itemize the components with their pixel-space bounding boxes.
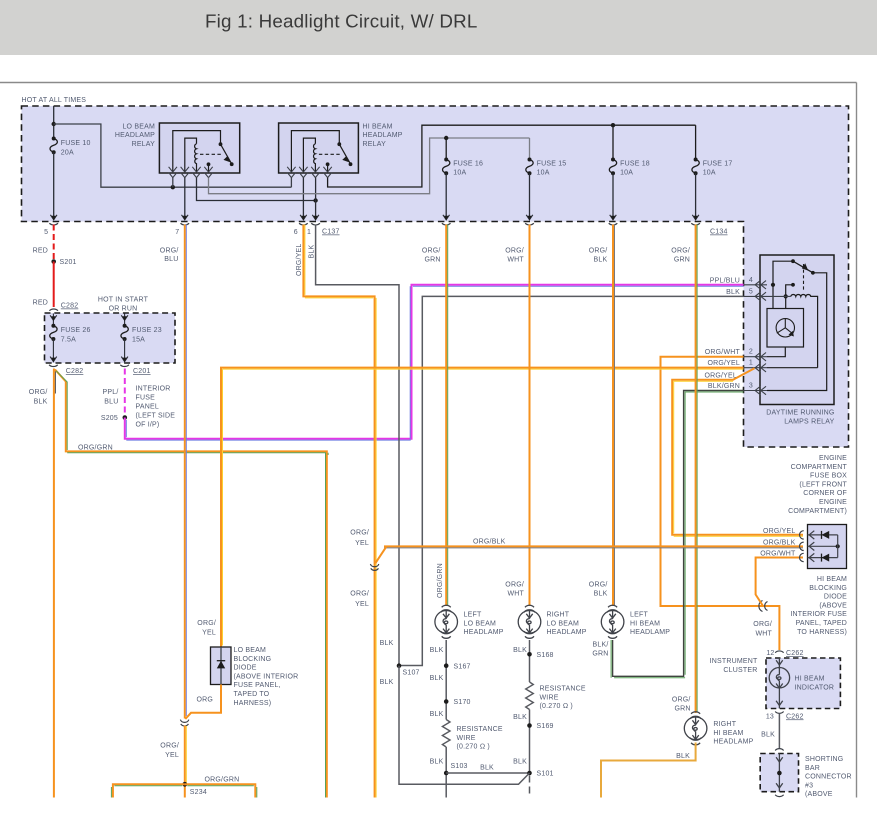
lamp RIGHT LO BEAM HEADLAMP (518, 605, 541, 638)
wire BLK S103 to S101 (446, 772, 529, 774)
svg-text:FUSE 15: FUSE 15 (537, 160, 567, 167)
svg-text:ORG: ORG (196, 696, 213, 703)
connector arc below fuse18 pin (609, 223, 618, 225)
svg-text:ORG/WHT: ORG/WHT (705, 349, 741, 356)
svg-text:ORG/: ORG/ (197, 620, 216, 627)
pin arrow fuse 17 output (692, 215, 699, 221)
connector arc at diode row ORG/BLK (800, 542, 804, 550)
svg-text:BLU: BLU (164, 256, 178, 263)
splice S103 (444, 771, 449, 776)
svg-text:C262: C262 (786, 713, 804, 720)
svg-text:Fig 1: Headlight Circuit, W/ D: Fig 1: Headlight Circuit, W/ DRL (205, 11, 478, 32)
svg-text:FUSE 26: FUSE 26 (61, 327, 91, 334)
svg-text:ORG/: ORG/ (160, 743, 179, 750)
lamp LEFT LO BEAM HEADLAMP (435, 605, 458, 638)
svg-text:ENGINE: ENGINE (819, 455, 847, 462)
svg-text:PANEL: PANEL (136, 403, 159, 410)
svg-text:BLK: BLK (380, 640, 394, 647)
svg-text:ORG/GRN: ORG/GRN (205, 777, 240, 784)
fuse F15 drop (529, 138, 531, 160)
svg-text:HI BEAM: HI BEAM (817, 576, 847, 583)
svg-text:HI BEAM: HI BEAM (713, 730, 743, 737)
wire BLK right lo beam ground chain to S168 (529, 640, 531, 682)
svg-text:HEADLAMP: HEADLAMP (464, 629, 504, 636)
svg-text:ORG/: ORG/ (753, 621, 772, 628)
svg-text:CLUSTER: CLUSTER (723, 667, 757, 674)
svg-text:BLOCKING: BLOCKING (809, 585, 847, 592)
HI relay internal: terminal 1 riser and top bar (291, 131, 339, 172)
connector arc at diode row ORG/WHT (800, 553, 804, 561)
diode common vertical (837, 535, 839, 558)
svg-text:13: 13 (766, 713, 774, 720)
wire BLK dashed below S101 (529, 776, 531, 798)
svg-text:BLK: BLK (726, 289, 740, 296)
fuse F23 symbol (121, 326, 128, 339)
wire HI relay terminal 1 drop to feed line (290, 178, 292, 188)
svg-text:RIGHT: RIGHT (547, 612, 570, 619)
DRL relay coil (791, 295, 818, 368)
splice S167 (444, 663, 449, 668)
svg-text:5: 5 (749, 288, 753, 295)
wire ORG from diode to splice with ORG/BLU (185, 685, 221, 720)
svg-text:ORG/YEL: ORG/YEL (707, 360, 740, 367)
svg-text:S169: S169 (537, 723, 554, 730)
splice S201 (51, 259, 56, 264)
svg-text:FUSE 17: FUSE 17 (703, 160, 733, 167)
pin arrow into fuse 26 (50, 314, 57, 326)
HI relay switch blade (339, 144, 350, 164)
wire ORG/WHT C134 pin to right lo beam headlamp (529, 225, 531, 607)
node coil common junction (313, 198, 317, 202)
diagram right border (856, 83, 858, 798)
node junction at LO relay terminal 1 (171, 185, 175, 189)
svg-text:S201: S201 (60, 259, 77, 266)
wire ORG/GRN C134 pin to left lo beam headlamp (445, 225, 447, 607)
svg-text:ORG/: ORG/ (350, 591, 369, 598)
svg-text:10A: 10A (703, 170, 716, 177)
HI BEAM HEADLAMP RELAY box (279, 123, 359, 173)
ORG/GRN green tracer (696, 225, 698, 713)
svg-text:S234: S234 (190, 789, 207, 796)
svg-text:HEADLAMP: HEADLAMP (713, 739, 753, 746)
splice S169 (527, 723, 532, 728)
wire PPL/BLU dashed from C201 to S205 (124, 369, 126, 418)
svg-text:S170: S170 (454, 699, 471, 706)
ORG/GRN green tracer (111, 786, 256, 798)
svg-text:C282: C282 (61, 303, 79, 310)
svg-text:FUSE BOX: FUSE BOX (810, 473, 847, 480)
svg-text:ORG/: ORG/ (505, 248, 524, 255)
svg-text:S168: S168 (537, 652, 554, 659)
svg-text:YEL: YEL (202, 629, 216, 636)
svg-text:1: 1 (749, 360, 753, 367)
ORG/YEL yellow tracer (305, 225, 376, 798)
wire ORG/GRN C134 pin to right hi beam headlamp (695, 225, 697, 714)
wire BLK from pin 1 across and down to S107 (316, 225, 399, 666)
svg-text:C134: C134 (710, 229, 728, 236)
HI relay coil (314, 144, 316, 172)
svg-text:BLK: BLK (430, 759, 444, 766)
svg-text:INSTRUMENT: INSTRUMENT (710, 658, 758, 665)
svg-text:DAYTIME RUNNING: DAYTIME RUNNING (766, 409, 834, 416)
connector arc below fuse16 pin (442, 223, 451, 225)
DRL relay switch blade (793, 261, 813, 273)
svg-text:ORG/: ORG/ (672, 696, 691, 703)
DRL relay switch pivot post (773, 261, 793, 308)
svg-text:HEADLAMP: HEADLAMP (547, 629, 587, 636)
svg-text:WHT: WHT (507, 590, 524, 597)
wire LO relay switch output to lo-beam fuse rail (209, 138, 530, 194)
LO BEAM HEADLAMP RELAY box (159, 123, 239, 173)
svg-text:OR RUN: OR RUN (109, 305, 138, 312)
header grey bar (0, 0, 877, 55)
svg-text:BLK: BLK (513, 759, 527, 766)
DRL pin 1 arrow (744, 364, 768, 372)
DRL pin 5 arrow (744, 292, 791, 300)
svg-text:GRN: GRN (674, 705, 690, 712)
svg-text:BLK: BLK (513, 647, 527, 654)
svg-text:(ABOVE INTERIOR: (ABOVE INTERIOR (234, 673, 299, 680)
fuse F16 symbol (443, 160, 450, 174)
connector arc above C262 pin 12 (775, 651, 783, 653)
svg-text:10A: 10A (453, 170, 466, 177)
svg-text:HI BEAM: HI BEAM (630, 620, 660, 627)
svg-text:5: 5 (44, 229, 48, 236)
svg-text:S101: S101 (537, 771, 554, 778)
wire BLK to S103 (445, 747, 447, 798)
ORG/BLU blue tracer (185, 225, 187, 717)
ORG/BLK grey tracer (384, 547, 803, 549)
svg-text:S107: S107 (403, 670, 420, 677)
svg-text:BLK: BLK (34, 399, 48, 406)
splice S205 (123, 415, 128, 420)
wire RED fused feed (dashed) pin5 to S201 (53, 225, 55, 262)
svg-text:ORG/BLK: ORG/BLK (473, 539, 506, 546)
instrument cluster box (766, 658, 840, 709)
svg-text:BLOCKING: BLOCKING (234, 656, 272, 663)
connector arc above shorting bar (775, 749, 783, 751)
wire fuse 10 to pin 5 of C282 edge (53, 152, 55, 219)
wire ORG/YEL long horizontal from diode top corner to DRL pin 1 (221, 368, 744, 647)
svg-text:WHT: WHT (507, 256, 524, 263)
svg-text:LEFT: LEFT (630, 612, 648, 619)
DRL relay switch pivot dot (791, 259, 795, 263)
wire LO relay terminal 2 drop to pin 7 (184, 178, 186, 220)
svg-text:6: 6 (294, 229, 298, 236)
wire LO relay terminal 1 drop to feed line (172, 178, 174, 188)
wire ORG/BLU from pin 7 down to splice (184, 225, 186, 719)
svg-text:HI BEAM: HI BEAM (795, 675, 825, 682)
svg-text:PPL/: PPL/ (103, 389, 119, 396)
wire HI relay switch output to hi-beam fuse rail (328, 125, 696, 187)
connector arc below C282 output (49, 365, 58, 367)
svg-text:HEADLAMP: HEADLAMP (115, 132, 155, 139)
wire ORG/BLK C134 pin to left hi beam headlamp (612, 225, 614, 607)
svg-text:4: 4 (749, 277, 753, 284)
DRL module circle symbol (776, 319, 794, 337)
HI relay internal: terminal 2 riser and coil top bar (303, 138, 315, 171)
svg-text:BLK: BLK (430, 711, 444, 718)
svg-text:RESISTANCE: RESISTANCE (457, 726, 503, 733)
pin arrow at box edge pin 6 (300, 215, 307, 221)
splice S170 (444, 699, 449, 704)
pin arrow fuse 16 output (443, 215, 450, 221)
splice S101 (527, 771, 532, 776)
svg-text:BLK: BLK (480, 764, 494, 771)
wire fuse 17 to C134 edge (695, 173, 697, 219)
node pin5 junction (784, 294, 788, 298)
lo beam blocking diode symbol (217, 660, 225, 662)
svg-text:ORG/: ORG/ (422, 248, 441, 255)
svg-text:ORG/YEL: ORG/YEL (763, 528, 796, 535)
engine compartment fuse box region (lavender dashed L-shape) (22, 106, 849, 447)
svg-text:HOT IN START: HOT IN START (98, 296, 149, 303)
wire battery feed vertical into fuse 10 (53, 106, 55, 139)
connector C282 top arc (49, 309, 58, 311)
LO relay switch blade (221, 144, 232, 164)
resistance wire right (zigzag) (526, 682, 534, 710)
fuse F17 symbol (692, 160, 699, 174)
splice S168 (527, 652, 532, 657)
connector arc below pin 7 (181, 223, 190, 225)
svg-text:DIODE: DIODE (234, 665, 257, 672)
interior fuse panel box (dashed lavender) (45, 313, 176, 363)
wire RED S201 to C282 (53, 262, 55, 308)
wire ORG/YEL second branch diagonal into pin 1 (672, 368, 803, 535)
DRL control module box (767, 309, 804, 348)
svg-text:S167: S167 (454, 663, 471, 670)
fuse F16 drop (445, 138, 447, 160)
svg-text:LO BEAM: LO BEAM (464, 620, 497, 627)
ORG/GRN green tracer (56, 371, 328, 798)
diode row 1 wire and arrow (808, 531, 838, 539)
svg-text:GRN: GRN (424, 256, 440, 263)
node feed junction (52, 122, 56, 126)
HI relay terminal arrows (287, 167, 332, 178)
connector arc below C262 pin 13 (775, 712, 783, 714)
pin arrow at box edge pin 7 (182, 215, 189, 221)
DRL pin 3 arrow (744, 386, 768, 394)
diode row 3 wire and arrow (808, 553, 838, 561)
svg-text:LO BEAM: LO BEAM (234, 647, 267, 654)
ORG/GRN green tracer (447, 225, 449, 606)
lo beam blocking diode internal wire (220, 647, 222, 685)
LO relay internal: terminal 2 riser and coil top bar (185, 138, 197, 171)
HI relay switch pivot (337, 142, 341, 146)
PPL/BLU blue tracer (126, 286, 743, 440)
splice S107 (397, 663, 402, 668)
shorting bar internal wire (776, 754, 783, 792)
svg-text:WHT: WHT (755, 630, 772, 637)
diode D1 symbol (821, 531, 823, 539)
svg-text:YEL: YEL (165, 752, 179, 759)
svg-text:10A: 10A (537, 170, 550, 177)
svg-text:PPL/BLU: PPL/BLU (710, 277, 740, 284)
svg-text:BLU: BLU (104, 399, 118, 406)
svg-text:BLK: BLK (594, 590, 608, 597)
LO relay switch pivot (219, 142, 223, 146)
svg-text:(ABOVE: (ABOVE (819, 602, 847, 609)
fuse F15 symbol (526, 160, 533, 174)
DRL pin 2 arrow (744, 353, 768, 361)
connector arc below shorting bar (775, 795, 783, 797)
ORG/YEL second branch yellow tracer (674, 381, 803, 536)
fuse F18 symbol (609, 160, 616, 174)
wire BLK/GRN from DRL pin 3 to left hi beam headlamp (613, 391, 744, 677)
wire BLK S107 down to ground bus (399, 666, 530, 785)
svg-text:SHORTING: SHORTING (805, 756, 843, 763)
diode D2 symbol (821, 554, 823, 562)
svg-text:2: 2 (749, 349, 753, 356)
daytime running lamps relay inner box (760, 255, 834, 405)
svg-text:BLK: BLK (513, 714, 527, 721)
LO relay coil (195, 144, 197, 172)
svg-text:RELAY: RELAY (132, 141, 156, 148)
svg-text:INDICATOR: INDICATOR (795, 684, 835, 691)
lamp LEFT HI BEAM HEADLAMP (601, 605, 624, 638)
svg-text:10A: 10A (620, 170, 633, 177)
pin arrow at box edge pin 1 (312, 215, 319, 221)
wire LO relay coil terminal to HI coil terminal junction (197, 178, 316, 201)
svg-text:FUSE: FUSE (136, 394, 156, 401)
svg-text:15A: 15A (132, 336, 145, 343)
node diode common junction (836, 544, 840, 548)
svg-text:(0.270 Ω ): (0.270 Ω ) (457, 744, 490, 751)
svg-text:C201: C201 (133, 368, 151, 375)
svg-text:ORG/: ORG/ (29, 389, 48, 396)
wire fuse 16 to C134 edge (445, 173, 447, 219)
svg-text:LO BEAM: LO BEAM (122, 123, 155, 130)
svg-text:BLK: BLK (309, 245, 316, 259)
svg-text:BLK/GRN: BLK/GRN (708, 383, 740, 390)
svg-text:OF I/P): OF I/P) (136, 421, 160, 428)
resistance wire left (zigzag) (442, 720, 450, 748)
svg-text:RELAY: RELAY (363, 141, 387, 148)
wire ORG/GRN from C282 diagonal then down and across (55, 370, 327, 798)
svg-text:ORG/: ORG/ (671, 248, 690, 255)
wire ORG/YEL from pin 6 across and down to splice S-below (303, 225, 374, 798)
wire fuse 26 to box bottom with arrow (50, 339, 57, 362)
wire right hi beam ground (601, 743, 696, 798)
svg-text:INTERIOR FUSE: INTERIOR FUSE (790, 611, 847, 618)
svg-text:ORG/YEL: ORG/YEL (704, 372, 737, 379)
wire fuse 15 to C134 edge (529, 173, 531, 219)
svg-text:C262: C262 (786, 650, 804, 657)
svg-text:FUSE 16: FUSE 16 (453, 160, 483, 167)
svg-text:COMPARTMENT): COMPARTMENT) (788, 508, 847, 515)
svg-text:BLK: BLK (676, 753, 690, 760)
wire BLK to S169 and S101 (529, 710, 531, 774)
svg-text:BLK/: BLK/ (593, 642, 609, 649)
svg-text:HEADLAMP: HEADLAMP (363, 132, 403, 139)
node fuse 18 tap on hi rail (611, 123, 615, 127)
wire ORG/WHT branch up to hi beam blocking diode (756, 558, 803, 607)
connector arc below pin 5 (49, 223, 58, 225)
svg-text:COMPARTMENT: COMPARTMENT (791, 464, 848, 471)
wire pin1 row to coil right leg (767, 367, 818, 369)
svg-text:PANEL, TAPED: PANEL, TAPED (796, 620, 847, 627)
svg-text:(LEFT FRONT: (LEFT FRONT (799, 481, 847, 488)
wire HI relay terminal 2 drop to pin 6 (302, 178, 304, 220)
svg-text:YEL: YEL (355, 540, 369, 547)
connector arc below pin 1 (311, 223, 320, 225)
svg-text:ORG/: ORG/ (160, 247, 179, 254)
svg-text:HI BEAM: HI BEAM (363, 123, 393, 130)
wire ORG/BLK horizontal to hi beam blocking diode (384, 545, 803, 547)
svg-text:BLK: BLK (594, 256, 608, 263)
svg-text:ORG/: ORG/ (350, 530, 369, 537)
pin arrow into fuse 23 (121, 314, 128, 326)
LO relay internal: terminal 1 riser and top bar (173, 131, 221, 172)
wire BLK from DRL pin 5 to S107 (401, 296, 744, 665)
svg-text:C282: C282 (66, 368, 84, 375)
svg-text:YEL: YEL (355, 601, 369, 608)
svg-text:ORG/: ORG/ (589, 248, 608, 255)
svg-text:INTERIOR: INTERIOR (136, 385, 171, 392)
LO relay terminal arrows (169, 167, 213, 178)
wire ORG/GRN ground bus right branch (185, 784, 256, 797)
svg-text:LAMPS RELAY: LAMPS RELAY (784, 418, 834, 425)
wire PPL/BLU S205 to daytime running lamps relay pin 4 (125, 285, 744, 439)
svg-text:DIODE: DIODE (824, 594, 847, 601)
svg-text:LEFT: LEFT (464, 612, 482, 619)
svg-text:FUSE 10: FUSE 10 (61, 140, 91, 147)
wire ORG/BLK from C282 down left side (53, 369, 55, 798)
wire module output to pin 2 (767, 347, 785, 357)
svg-text:LO BEAM: LO BEAM (547, 620, 580, 627)
DRL relay switch dashed link (803, 264, 805, 292)
diagram top border (0, 82, 857, 84)
svg-text:ENGINE: ENGINE (819, 499, 847, 506)
wire ORG/GRN ground bus left branch (113, 784, 185, 797)
svg-text:12: 12 (766, 650, 774, 657)
DRL relay internal link dot to coil drop (791, 283, 795, 287)
connector arc below pin 6 (299, 223, 308, 225)
svg-text:HEADLAMP: HEADLAMP (630, 629, 670, 636)
shorting bar connector #3 box (760, 754, 798, 792)
svg-text:TO HARNESS): TO HARNESS) (797, 629, 847, 636)
svg-text:BLK: BLK (430, 675, 444, 682)
svg-text:RIGHT: RIGHT (713, 721, 736, 728)
LO relay terminal 4 post (207, 162, 211, 166)
splice arcs on ORG/WHT (759, 601, 768, 612)
svg-text:FUSE 18: FUSE 18 (620, 160, 650, 167)
pin arrow fuse 15 output (526, 215, 533, 221)
wire BLK indicator to shorting bar (778, 714, 780, 750)
svg-text:ORG/YEL: ORG/YEL (296, 243, 303, 276)
ORG/BLK black tracer stub (54, 370, 56, 394)
hi beam blocking diode box (808, 525, 847, 569)
fuse F26 symbol (50, 326, 57, 339)
svg-text:(LEFT SIDE: (LEFT SIDE (136, 412, 176, 419)
svg-text:BLK: BLK (430, 647, 444, 654)
ORG/YEL yellow tracer (185, 726, 187, 783)
svg-text:7: 7 (175, 229, 179, 236)
fuse F10 symbol (50, 139, 57, 153)
svg-text:ORG/: ORG/ (505, 581, 524, 588)
svg-text:GRN: GRN (592, 651, 608, 658)
svg-text:7.5A: 7.5A (61, 336, 76, 343)
svg-text:WIRE: WIRE (457, 735, 476, 742)
svg-text:RED: RED (33, 247, 48, 254)
wire fuse 18 to C134 edge (612, 173, 614, 219)
ORG/BLK grey tracer (614, 225, 616, 606)
svg-text:BLK: BLK (380, 679, 394, 686)
svg-text:1: 1 (307, 229, 311, 236)
ORG/YEL yellow tracer (223, 369, 744, 645)
svg-text:BLK: BLK (761, 731, 775, 738)
fuse F17 drop (695, 125, 697, 159)
